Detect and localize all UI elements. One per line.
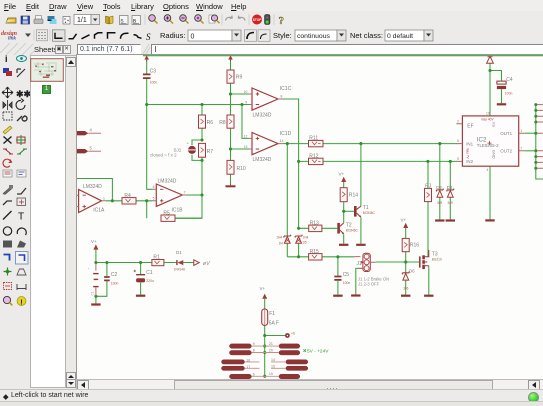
zener diode D4 — [276, 235, 290, 246]
ground under IC2 — [485, 219, 494, 221]
capacitor C3 — [143, 68, 157, 84]
svg-text:D1: D1 — [176, 250, 182, 255]
svg-text:R13: R13 — [310, 220, 319, 226]
svg-text:R15: R15 — [310, 249, 319, 255]
resistor R13 — [309, 220, 322, 231]
svg-text:BC846C: BC846C — [363, 211, 376, 215]
svg-text:5: 5 — [153, 197, 155, 201]
resistor R15 — [309, 249, 322, 260]
svg-text:STOP: STOP — [253, 18, 262, 22]
svg-text:19: 19 — [269, 372, 273, 376]
svg-text:16: 16 — [246, 358, 250, 362]
svg-text:T1: T1 — [363, 205, 369, 211]
ground under D2 — [435, 219, 444, 221]
wire T1 collector column — [360, 144, 362, 206]
svg-text:VS: VS — [491, 122, 496, 128]
ground under D6 — [401, 295, 410, 297]
svg-text:R4: R4 — [124, 193, 131, 199]
connector row pins 6 19 — [230, 372, 300, 379]
resistor RJ — [425, 184, 432, 202]
smash / miter — [3, 185, 13, 195]
wire R16 to gate node — [405, 252, 407, 262]
svg-text:RJ: RJ — [425, 184, 432, 190]
transistor T2 — [337, 222, 358, 234]
capacitor C4 — [497, 77, 513, 95]
script icon 1 — [120, 16, 129, 25]
svg-text:LM324D: LM324D — [83, 184, 102, 190]
replace — [3, 159, 11, 167]
pad with net stub — [285, 332, 295, 338]
svg-text:EF: EF — [467, 124, 473, 130]
junction / label — [4, 268, 12, 276]
wire C2 branch — [96, 263, 107, 297]
svg-text:LM324D: LM324D — [253, 112, 272, 118]
wire / text — [3, 211, 12, 220]
svg-text:IC1B: IC1B — [172, 207, 184, 213]
wire C5 branch — [337, 257, 339, 295]
wire R6 R7 column — [161, 105, 202, 219]
svg-text:R6: R6 — [207, 120, 214, 126]
zener diode D2 — [436, 185, 443, 205]
svg-text:100n: 100n — [505, 91, 513, 95]
svg-text:5: 5 — [457, 157, 459, 161]
wire IC1C plus input — [231, 93, 250, 95]
connector pin 5 left — [77, 146, 101, 154]
wire D3 column — [449, 161, 451, 219]
group / change — [3, 112, 12, 120]
wire SJ1 branch — [192, 140, 202, 160]
save icon — [21, 16, 30, 24]
svg-text:10: 10 — [486, 112, 490, 116]
svg-text:6: 6 — [457, 139, 459, 143]
wire RJ T3 drain column — [427, 161, 429, 256]
svg-text:IN2: IN2 — [466, 159, 473, 164]
wire C1 branch — [140, 263, 142, 295]
wire C3 column — [146, 60, 148, 104]
svg-text:C1: C1 — [146, 270, 153, 276]
traffic light — [265, 15, 271, 25]
wire IC1A output / R4 line — [106, 200, 153, 202]
wire T3 source to ground — [428, 266, 430, 295]
supply V+ arrow R14 — [339, 172, 347, 183]
svg-text:R14: R14 — [349, 192, 358, 198]
wire node N1 horizontal — [147, 104, 249, 106]
svg-text:3v9: 3v9 — [448, 201, 453, 205]
svg-text:IC1D: IC1D — [280, 131, 292, 137]
svg-text:D5: D5 — [303, 241, 307, 245]
info text J1 jumper — [358, 276, 389, 286]
IC2 TLE5205-2 — [456, 112, 524, 173]
wire V+ to F1 — [264, 299, 266, 309]
svg-text:1/1: 1/1 — [77, 17, 87, 24]
export icon — [48, 16, 57, 24]
svg-text:R11: R11 — [309, 136, 318, 142]
svg-text:5V - +24V: 5V - +24V — [307, 348, 329, 354]
svg-text:1: 1 — [103, 196, 105, 200]
ground under C2 — [91, 303, 100, 305]
bus / net(selected) — [4, 255, 10, 261]
ground under C5 — [333, 295, 342, 297]
svg-text:R1: R1 — [153, 255, 160, 261]
svg-text:øV: øV — [203, 261, 211, 267]
circle / arc — [3, 227, 11, 235]
connector row pins 9 21 — [230, 342, 300, 348]
zener diode D5 — [295, 235, 308, 245]
grid button — [37, 30, 48, 41]
svg-text:10: 10 — [244, 90, 248, 94]
svg-text:C1: C1 — [91, 291, 95, 295]
svg-text:LM324D: LM324D — [158, 179, 177, 185]
svg-text:Style:: Style: — [273, 31, 292, 40]
sheets panel scrollbar — [65, 55, 78, 388]
wire IC1C output column — [283, 99, 299, 257]
wire J1 pin3 to ground — [356, 268, 364, 294]
ground under C4 — [497, 103, 506, 105]
wire left cap bottom to ground — [95, 296, 97, 303]
redo arrow — [238, 16, 245, 21]
svg-text:5A F: 5A F — [269, 321, 279, 327]
wire C3 column to IC1B minus — [147, 105, 153, 190]
svg-text:7: 7 — [520, 146, 522, 150]
svg-text:9: 9 — [253, 342, 255, 346]
svg-text:R7: R7 — [207, 149, 214, 155]
svg-text:C2: C2 — [111, 272, 118, 278]
wire V+ to R16 — [405, 228, 407, 238]
svg-text:IC1C: IC1C — [280, 86, 292, 92]
resistor R11 — [309, 136, 324, 147]
resistor R14 — [340, 188, 358, 202]
svg-text:R8: R8 — [219, 120, 226, 126]
svg-text:C5: C5 — [343, 272, 350, 278]
right edge connector stubs — [537, 105, 543, 169]
svg-text:GND: GND — [491, 150, 496, 159]
svg-text:1: 1 — [520, 129, 522, 133]
svg-text:Radius:: Radius: — [160, 31, 185, 40]
five zoom icons — [149, 15, 220, 24]
wire right connector rail — [536, 105, 543, 179]
svg-text:3v6: 3v6 — [403, 286, 408, 290]
svg-text:100n: 100n — [150, 81, 158, 85]
svg-text:+: + — [187, 141, 190, 146]
svg-text:!: ! — [20, 298, 23, 307]
svg-text:4: 4 — [90, 128, 93, 133]
supply V+ arrow R16 — [401, 218, 409, 229]
svg-text:R10: R10 — [237, 166, 246, 172]
display / mark — [3, 68, 12, 76]
svg-text:1N4: 1N4 — [276, 235, 282, 239]
zener diode D6 — [402, 269, 415, 291]
net label 5V +24V — [303, 348, 329, 354]
svg-text:13: 13 — [244, 145, 248, 149]
svg-text:0 default: 0 default — [387, 33, 413, 40]
zener diode D3 — [447, 185, 454, 205]
use icon — [63, 17, 70, 25]
print icon — [34, 16, 43, 24]
wire power node branch to pad — [265, 335, 286, 337]
svg-text:3v9: 3v9 — [437, 201, 442, 205]
svg-text:14: 14 — [280, 139, 284, 143]
op-amp IC1D — [244, 131, 292, 163]
svg-text:1N4: 1N4 — [303, 235, 309, 239]
transistor T1 — [354, 205, 376, 217]
svg-text:14: 14 — [271, 358, 275, 362]
svg-text:+: + — [87, 268, 91, 270]
supply V+ arrow IC2 — [487, 56, 494, 63]
ground under J1 — [351, 294, 360, 296]
op-amp IC1A — [77, 184, 106, 214]
ground under T3 — [424, 295, 433, 297]
svg-text:OUT1: OUT1 — [500, 131, 512, 136]
wire T1 emitter to ground — [360, 217, 362, 243]
svg-text:7: 7 — [184, 190, 186, 194]
svg-text:20: 20 — [269, 349, 273, 353]
svg-text:?: ? — [279, 15, 285, 27]
svg-text:max 7V: max 7V — [465, 148, 469, 160]
supply V- bar under R10 — [226, 184, 236, 188]
mirror / rotate — [3, 100, 12, 110]
wire left power rail — [96, 262, 152, 264]
svg-text:i: i — [5, 55, 8, 64]
svg-text:V+: V+ — [260, 286, 266, 291]
svg-text:9: 9 — [245, 101, 247, 105]
svg-text:link: link — [8, 37, 17, 42]
svg-text:1N4148: 1N4148 — [174, 267, 185, 271]
resistor R16 — [402, 238, 419, 251]
stop sign — [252, 15, 262, 25]
cut — [3, 126, 12, 134]
wire R5 feedback left — [147, 201, 175, 218]
wire R13 to T2 base — [299, 227, 338, 229]
bend style buttons — [53, 30, 152, 42]
info text closed = f x 2 — [150, 152, 177, 157]
wire D4 column — [286, 144, 288, 257]
svg-text:D2: D2 — [436, 185, 442, 190]
move / copy — [2, 87, 13, 98]
wire R14 to T1 base node — [343, 202, 345, 223]
wire R9 column — [230, 60, 232, 183]
resistor R7 — [199, 143, 214, 157]
mosfet T3 — [419, 250, 442, 269]
resistor R5 — [161, 210, 175, 221]
two arc buttons — [245, 30, 257, 42]
attribute / dimension — [4, 283, 12, 290]
name / value — [3, 170, 12, 177]
wire rail to D1 — [164, 262, 194, 264]
erc / errors — [3, 296, 12, 305]
svg-text:V+: V+ — [91, 239, 97, 244]
resistor R4 — [122, 193, 136, 204]
wire R12 line — [299, 160, 458, 162]
svg-text:closed = f x 2: closed = f x 2 — [150, 152, 177, 157]
svg-text:C4: C4 — [506, 77, 513, 83]
svg-text:4: 4 — [487, 168, 489, 172]
svg-text:8: 8 — [253, 349, 255, 353]
svg-text:IN1: IN1 — [466, 141, 473, 146]
wire D6 branch — [405, 262, 407, 295]
script icon 2 — [132, 16, 141, 25]
svg-text:S: S — [146, 32, 151, 42]
ground under T1 — [356, 244, 365, 246]
wire left edge to IC1A out node — [77, 179, 113, 201]
wire V+ to left rail — [95, 250, 97, 263]
svg-text:100n: 100n — [343, 281, 351, 285]
wire R11 line — [287, 143, 457, 145]
svg-text:✱✱: ✱✱ — [16, 89, 30, 99]
green sheet number badge — [42, 85, 51, 94]
wire IC1D minus branch — [231, 148, 250, 150]
wire F1 to power node — [264, 326, 266, 377]
sheet combo 1/1 — [74, 15, 100, 25]
fuse F1 — [262, 309, 279, 327]
supply V+ mark on rail mid — [228, 55, 233, 61]
svg-text:15: 15 — [271, 365, 275, 369]
wire IC1B output — [187, 194, 203, 196]
svg-text:6: 6 — [153, 185, 155, 189]
rect / polygon — [3, 241, 12, 248]
svg-text:IC1A: IC1A — [93, 207, 105, 213]
svg-text:J1 2-3 OFF: J1 2-3 OFF — [358, 282, 380, 287]
svg-text:R9: R9 — [236, 75, 243, 81]
svg-text:J1: J1 — [357, 261, 363, 267]
resistor R1 — [152, 255, 164, 266]
polarized capacitor C1 — [134, 270, 154, 283]
jumper J1 — [354, 253, 375, 271]
connector pin 4 left — [77, 128, 101, 136]
svg-text:D3: D3 — [447, 185, 453, 190]
supply V+ mark on rail left — [144, 55, 149, 61]
ground under D3 — [446, 219, 455, 221]
svg-text:continuous: continuous — [297, 33, 330, 40]
wire IC2 GND pin — [489, 166, 491, 219]
thumbnail preview of sheet 1 — [30, 58, 64, 82]
wire R5 to IC1B out column — [175, 217, 202, 219]
svg-text:F1: F1 — [269, 311, 275, 317]
resistor R10 — [227, 160, 246, 174]
svg-text:Net class:: Net class: — [350, 31, 383, 40]
svg-text:BUZ10: BUZ10 — [432, 258, 442, 262]
svg-text:D6: D6 — [409, 269, 415, 274]
svg-text:LM324D: LM324D — [253, 157, 272, 163]
delete / add — [4, 137, 12, 144]
wire J1 pin2 to T3 gate — [376, 261, 419, 263]
ground under C1 — [136, 295, 145, 297]
supply V+ arrow F1 — [260, 286, 268, 299]
resistor R12 — [309, 154, 324, 165]
svg-text:12: 12 — [244, 134, 248, 138]
split / invoke — [3, 201, 12, 205]
svg-text:5: 5 — [90, 146, 93, 151]
svg-text:OUT2: OUT2 — [500, 148, 512, 153]
wire T1 base link — [344, 210, 354, 212]
library icon — [106, 16, 114, 24]
wire C4 branch — [490, 71, 502, 104]
connector row pins 17 15 — [222, 365, 308, 371]
diode D1 — [174, 250, 185, 271]
svg-text:0: 0 — [191, 34, 195, 41]
svg-text:BC846C: BC846C — [346, 228, 359, 232]
resistor R6 — [199, 115, 214, 128]
capacitor C2 — [104, 272, 118, 285]
wire D2 column — [439, 144, 441, 220]
wire R15 line — [287, 256, 354, 258]
capacitor C5 — [334, 272, 350, 285]
connector row pins 8 20 — [230, 349, 300, 355]
supply V+ arrow left rail — [91, 239, 98, 250]
svg-text:TLE5205-2: TLE5205-2 — [477, 143, 499, 148]
svg-text:6: 6 — [253, 372, 255, 376]
ground under T2 — [339, 244, 348, 246]
connector row pins 16 14 — [222, 358, 308, 364]
polarized capacitor EC left column — [87, 263, 99, 296]
open folder icon — [6, 18, 16, 23]
svg-text:8: 8 — [281, 95, 283, 99]
svg-text:17: 17 — [246, 365, 250, 369]
wire top supply rail — [143, 55, 543, 57]
svg-text:R12: R12 — [309, 154, 318, 160]
resistor R8 — [219, 115, 234, 128]
svg-text:R16: R16 — [410, 243, 419, 249]
wire IC2 VS pin — [489, 63, 491, 116]
svg-text:V+: V+ — [401, 218, 407, 223]
svg-text:R5: R5 — [163, 210, 170, 216]
svg-text:2: 2 — [457, 119, 459, 123]
svg-text:D4: D4 — [279, 242, 283, 246]
wire V+ to R14 — [343, 182, 345, 188]
svg-text:max 40V: max 40V — [481, 117, 494, 121]
svg-text:21: 21 — [269, 342, 273, 346]
resistor R9 — [227, 70, 243, 83]
svg-text:V+: V+ — [339, 172, 345, 177]
svg-text:T: T — [18, 212, 24, 223]
wire OUT1 to right rail — [525, 132, 536, 134]
op-amp IC1C — [244, 86, 292, 118]
solder jumper SJ1 — [174, 141, 197, 154]
net arrow oV — [194, 260, 211, 267]
svg-text:C3: C3 — [150, 68, 157, 74]
svg-text:220u: 220u — [146, 279, 154, 283]
svg-text:100n: 100n — [111, 281, 119, 285]
wire IC1D plus branch — [242, 105, 249, 139]
op-amp IC1B — [153, 179, 187, 214]
pinswap / gateswap — [3, 149, 13, 154]
undo arrow — [226, 16, 233, 21]
svg-text:+6: +6 — [291, 332, 295, 336]
wire OUT2 to right rail — [525, 150, 536, 152]
svg-text:T3: T3 — [432, 251, 438, 257]
wire IC1D output — [283, 143, 288, 145]
wire T2 emitter to ground — [343, 234, 345, 243]
